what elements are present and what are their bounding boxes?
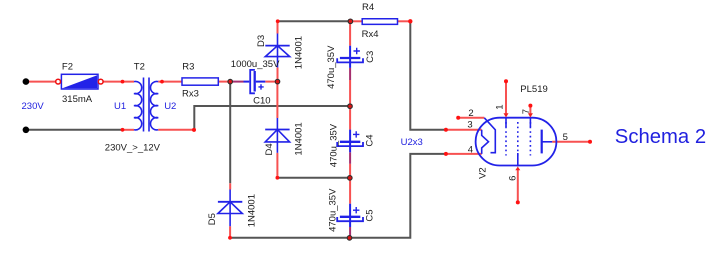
svg-text:6: 6 <box>507 176 518 181</box>
svg-text:Rx4: Rx4 <box>362 29 379 40</box>
svg-text:D5: D5 <box>207 213 218 225</box>
svg-text:C3: C3 <box>365 51 376 63</box>
svg-text:R3: R3 <box>182 62 194 73</box>
svg-text:Schema 2: Schema 2 <box>615 126 706 148</box>
svg-text:C10: C10 <box>253 95 270 106</box>
svg-text:470u_35V: 470u_35V <box>328 188 339 232</box>
svg-text:Rx3: Rx3 <box>182 89 199 100</box>
svg-text:PL519: PL519 <box>520 84 547 95</box>
svg-text:U2: U2 <box>164 101 176 112</box>
svg-text:1N4001: 1N4001 <box>294 122 305 155</box>
svg-text:5: 5 <box>563 132 568 143</box>
svg-text:U1: U1 <box>114 101 126 112</box>
svg-text:230V_>_12V: 230V_>_12V <box>105 142 161 153</box>
svg-text:7: 7 <box>521 109 532 114</box>
svg-text:230V: 230V <box>22 101 45 112</box>
svg-text:315mA: 315mA <box>62 94 93 105</box>
svg-text:D4: D4 <box>264 143 275 155</box>
svg-text:1: 1 <box>495 104 506 109</box>
svg-text:470u_35V: 470u_35V <box>326 45 337 89</box>
svg-text:C5: C5 <box>365 209 376 221</box>
svg-text:U2x3: U2x3 <box>401 137 423 148</box>
svg-text:F2: F2 <box>62 62 73 73</box>
svg-text:1000u_35V: 1000u_35V <box>231 59 280 70</box>
svg-text:2: 2 <box>468 108 473 119</box>
svg-text:D3: D3 <box>256 35 267 47</box>
svg-text:4: 4 <box>468 144 473 155</box>
svg-text:470u_35V: 470u_35V <box>328 123 339 167</box>
svg-text:1N4001: 1N4001 <box>246 194 257 227</box>
svg-text:T2: T2 <box>134 62 145 73</box>
svg-text:R4: R4 <box>362 2 374 13</box>
svg-text:C4: C4 <box>365 134 376 146</box>
svg-text:1N4001: 1N4001 <box>294 36 305 69</box>
svg-text:3: 3 <box>467 120 472 131</box>
svg-text:V2: V2 <box>478 167 489 179</box>
